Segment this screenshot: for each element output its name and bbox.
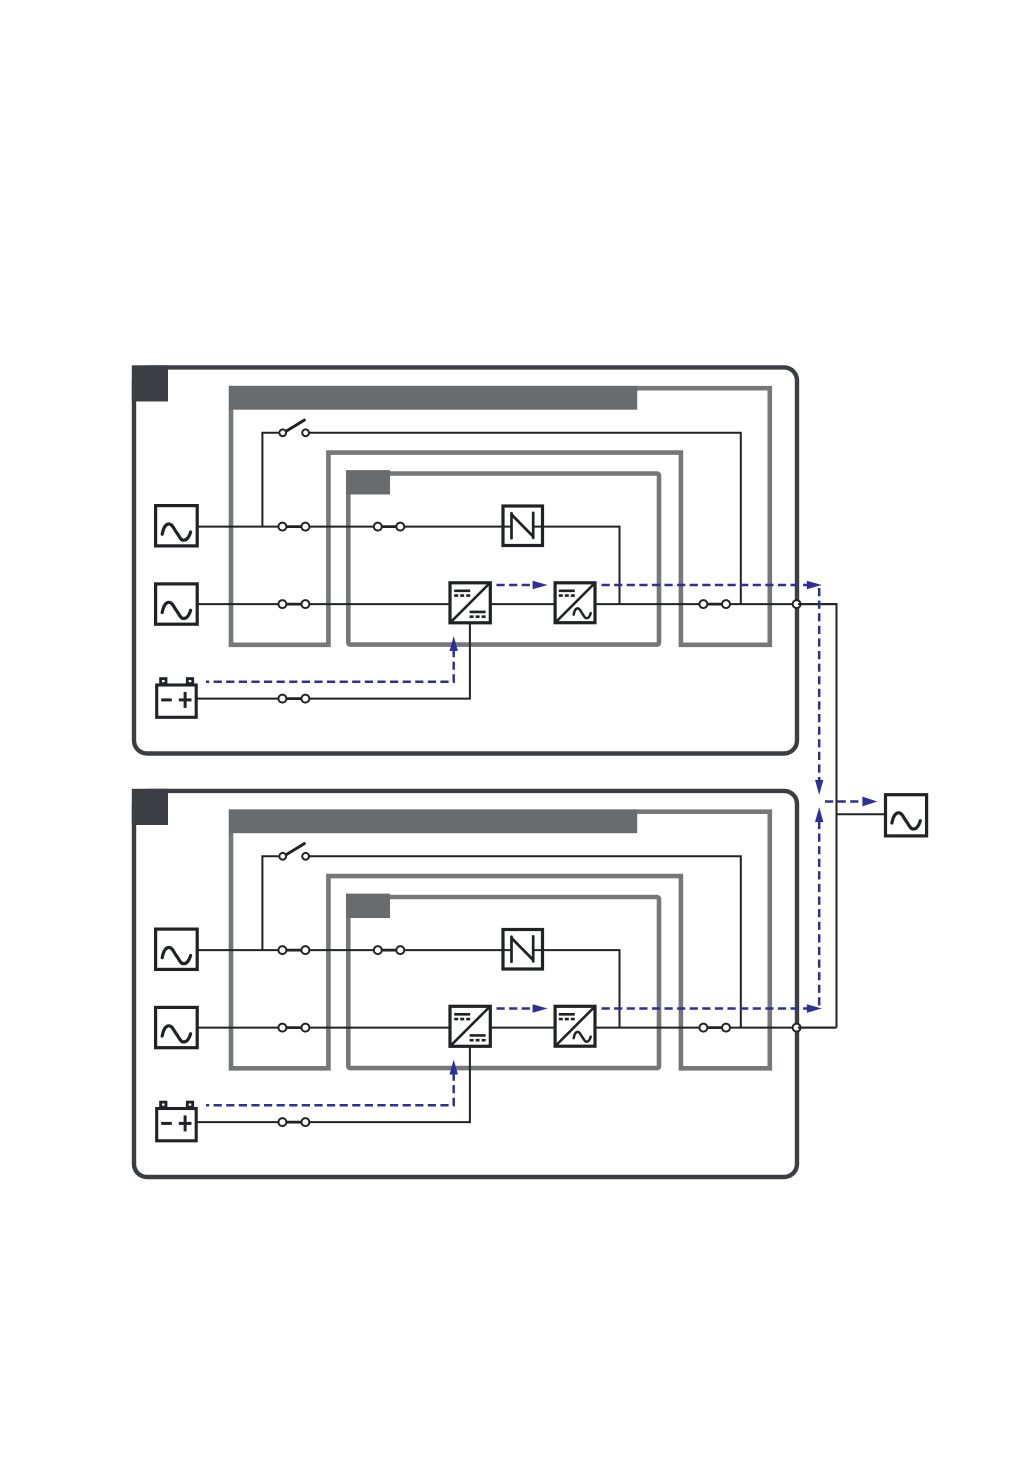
- wire: common bus to load: [837, 813, 886, 815]
- UPS unit 2 cabinet frame (gray, with bottom slot): [231, 812, 770, 1069]
- AC mains source 2 box unit 2: [156, 1007, 198, 1047]
- cabinet title bar unit 2: [229, 809, 637, 833]
- wire: unit 1 output to common bus: [798, 604, 837, 1028]
- rectifier glyphs unit 2: [451, 1007, 489, 1045]
- UPS unit 2 enclosure: [134, 791, 797, 1177]
- inverter glyphs unit 2: [556, 1007, 594, 1045]
- power flow: inverter to output unit 1: [602, 584, 810, 587]
- rectifier/charger box unit 2: [450, 1006, 490, 1046]
- output node unit 1: [793, 600, 801, 608]
- bypass switch (open) unit 2: [286, 844, 305, 856]
- battery unit 1: [161, 679, 166, 684]
- wire: battery to rectifier unit 1: [196, 623, 470, 699]
- wire: rectifier to inverter unit 1: [490, 603, 555, 605]
- power module frame unit 2: [348, 897, 659, 1068]
- input breaker unit 1: [282, 525, 305, 528]
- inverter box unit 1: [555, 583, 595, 623]
- input breaker unit 2: [282, 949, 305, 952]
- power module tab unit 1: [346, 470, 390, 494]
- wire: source 2 to rectifier unit 2: [197, 1027, 450, 1029]
- AC mains source 1 box unit 1: [156, 506, 198, 546]
- UPS unit 2 corner label square: [132, 789, 168, 825]
- load box: [886, 795, 927, 836]
- output breaker unit 2: [703, 1026, 726, 1029]
- wire: static switch output unit 2: [533, 950, 619, 1028]
- wire: unit 2 output to common bus: [798, 1027, 837, 1029]
- wire: maintenance bypass branch unit 2: [262, 856, 278, 950]
- battery unit 2: [161, 1102, 166, 1107]
- output breaker unit 1: [703, 603, 726, 606]
- wire: source 2 to rectifier unit 1: [197, 603, 450, 605]
- static bypass switch box (N) unit 1: [503, 506, 543, 546]
- power flow: inverter to output unit 2: [602, 1007, 810, 1010]
- AC mains source 1 box unit 2: [156, 929, 198, 969]
- power flow: junction to load: [825, 800, 862, 803]
- power module tab unit 2: [346, 894, 390, 918]
- wire: inverter to output node unit 2: [595, 1027, 837, 1029]
- power flow: rectifier to inverter unit 2: [497, 1007, 537, 1010]
- wire: maintenance bypass branch unit 1: [262, 433, 278, 527]
- AC mains source 2 box unit 1: [156, 584, 198, 624]
- UPS unit 1 corner label square: [132, 365, 168, 401]
- bypass input breaker unit 2: [282, 1026, 305, 1029]
- rectifier glyphs unit 1: [451, 584, 489, 622]
- inverter box unit 2: [555, 1006, 595, 1046]
- power flow: unit 2 up to load junction: [818, 821, 821, 1007]
- wire: static switch output unit 1: [533, 527, 619, 605]
- wire: inverter to output node unit 1: [595, 603, 837, 605]
- power flow: rectifier to inverter unit 1: [497, 584, 537, 587]
- cabinet title bar unit 1: [229, 386, 637, 410]
- power flow: battery to rectifier unit 2: [206, 1073, 454, 1106]
- rectifier/charger box unit 1: [450, 583, 490, 623]
- bypass input breaker unit 1: [282, 603, 305, 606]
- static bypass switch box (N) unit 2: [503, 930, 543, 970]
- module input breaker unit 1: [378, 525, 401, 528]
- battery breaker unit 2: [282, 1121, 305, 1124]
- power flow: unit 1 down to load junction: [818, 588, 821, 781]
- wire: source 1 to static switch unit 1: [197, 526, 511, 528]
- wire: rectifier to inverter unit 2: [490, 1027, 555, 1029]
- N glyph unit 1: [510, 513, 513, 538]
- wire: battery to rectifier unit 2: [196, 1046, 470, 1122]
- power flow: battery to rectifier unit 1: [206, 649, 454, 682]
- module input breaker unit 2: [378, 949, 401, 952]
- bypass switch (open) unit 1: [286, 420, 305, 432]
- output node unit 2: [793, 1024, 801, 1032]
- power module frame unit 1: [348, 474, 659, 645]
- UPS unit 1 cabinet frame (gray, with bottom slot): [231, 388, 770, 645]
- inverter glyphs unit 1: [556, 584, 594, 622]
- battery breaker unit 1: [282, 697, 305, 700]
- wire: source 1 to static switch unit 2: [197, 949, 511, 951]
- UPS unit 1 enclosure: [134, 367, 797, 753]
- N glyph unit 2: [510, 937, 513, 962]
